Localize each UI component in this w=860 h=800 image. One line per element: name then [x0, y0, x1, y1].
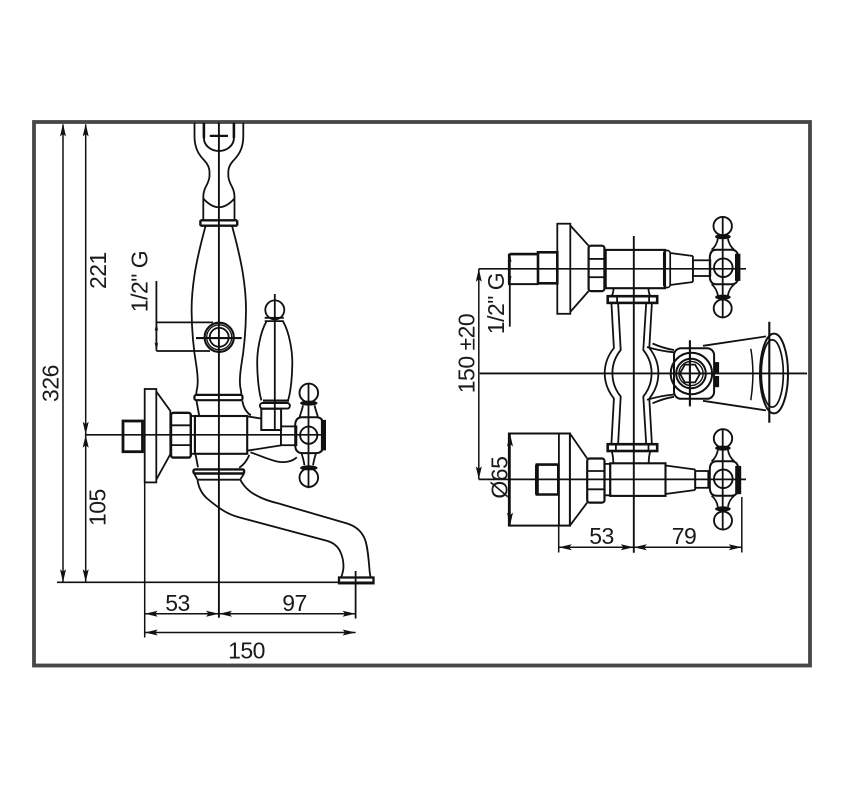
- axis line left view: [86, 434, 323, 436]
- svg-text:Ø65: Ø65: [487, 457, 513, 499]
- svg-text:79: 79: [672, 523, 697, 549]
- svg-text:1/2" G: 1/2" G: [127, 251, 153, 312]
- cross handle bottom: [710, 461, 739, 496]
- right: o65: [509, 434, 511, 526]
- cross handle top: [710, 250, 739, 284]
- baseline: [57, 581, 375, 583]
- svg-text:150 ±20: 150 ±20: [454, 314, 480, 393]
- collar: [200, 220, 237, 225]
- arrowheads: [60, 124, 742, 636]
- base skirt: [194, 395, 242, 400]
- shoulder curve: [251, 452, 297, 462]
- svg-text:97: 97: [282, 590, 307, 616]
- svg-text:150: 150: [228, 638, 265, 664]
- 1/2 G callout left: [155, 281, 157, 351]
- centerline left view: [218, 123, 220, 618]
- cup arc: [203, 199, 234, 208]
- spout: [198, 480, 344, 577]
- top branch: [509, 255, 538, 285]
- 326 line: [62, 125, 64, 582]
- stem: [281, 426, 297, 445]
- border frame: [34, 122, 810, 666]
- svg-text:105: 105: [84, 489, 110, 526]
- 150 dim: [145, 632, 356, 634]
- washer: [191, 416, 195, 454]
- column tube edges: [605, 303, 614, 444]
- right view: 150+-20: [478, 269, 480, 480]
- bonnet cone right: [247, 416, 281, 450]
- lower tube + flange: [196, 455, 198, 468]
- svg-text:1/2" G: 1/2" G: [483, 273, 509, 334]
- 1/2 G callout right: [509, 254, 511, 327]
- bell: [703, 336, 766, 410]
- bottom branch: [509, 434, 570, 526]
- valve body rect: [195, 416, 247, 454]
- vase body: [192, 226, 206, 396]
- inlet circle: [205, 323, 234, 352]
- 221 / 105 line: [85, 125, 87, 582]
- lever handle: [265, 300, 284, 319]
- column: [608, 296, 658, 451]
- svg-text:53: 53: [589, 523, 614, 549]
- hex nut: [171, 413, 191, 458]
- fork cross tick: [210, 135, 228, 137]
- cross handle hub (side): [295, 417, 323, 453]
- spout mount block: [674, 348, 714, 399]
- cross arms top: [300, 405, 318, 417]
- escutcheon: [145, 389, 157, 482]
- right: 53/79: [558, 526, 560, 553]
- svg-text:326: 326: [38, 365, 64, 402]
- svg-text:53: 53: [165, 590, 190, 616]
- shower-hose fork: [195, 123, 210, 221]
- wall pipe stub: [123, 421, 143, 452]
- svg-text:221: 221: [85, 252, 111, 289]
- 53/97 dim: [145, 613, 356, 615]
